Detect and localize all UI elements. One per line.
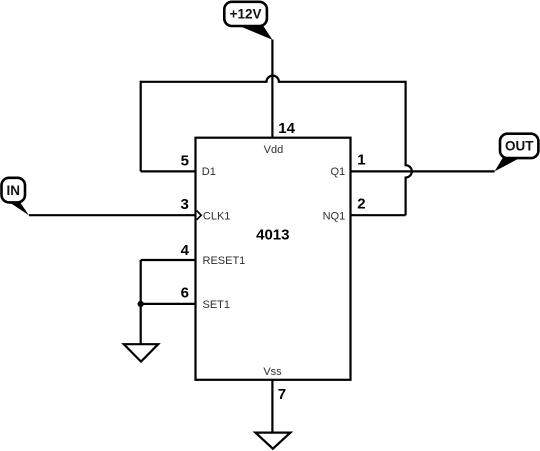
svg-text:4013: 4013: [256, 226, 289, 243]
ground symbol (left): [124, 344, 158, 361]
svg-text:Vdd: Vdd: [264, 144, 284, 156]
junction: SET1/ground node: [138, 301, 144, 307]
wire: SET1 pin 6 horizontal: [141, 303, 196, 305]
svg-text:IN: IN: [7, 183, 21, 198]
ground symbol (bottom): [255, 433, 290, 449]
wire: IN to CLK1 pin 3: [29, 214, 196, 216]
wire: right vertical with hop over Q1 wire: [406, 81, 412, 216]
svg-text:3: 3: [180, 196, 188, 213]
wire: RESET1 pin 4 horizontal: [141, 259, 196, 261]
svg-text:Q1: Q1: [331, 166, 346, 178]
wire: vertical RESET1/SET1 to ground: [140, 260, 142, 344]
svg-text:NQ1: NQ1: [323, 210, 346, 222]
svg-text:7: 7: [278, 386, 286, 403]
svg-text:+12V: +12V: [230, 7, 262, 22]
svg-text:5: 5: [181, 152, 189, 169]
output flag OUT: [495, 134, 539, 172]
svg-text:14: 14: [278, 120, 295, 137]
wire: +12V to pin 14 (vertical): [271, 40, 273, 138]
svg-text:6: 6: [181, 285, 189, 302]
svg-text:2: 2: [357, 196, 365, 213]
svg-text:1: 1: [357, 151, 365, 168]
clock input triangle on CLK1: [197, 211, 202, 220]
wire: left vertical (top net down to D1): [140, 81, 142, 172]
svg-text:CLK1: CLK1: [203, 210, 231, 222]
wire: top horizontal net with hop over +12V wire: [141, 76, 406, 82]
svg-text:Vss: Vss: [263, 366, 282, 378]
svg-text:OUT: OUT: [505, 139, 534, 154]
wire: NQ1 pin 2 horizontal: [351, 214, 406, 216]
svg-text:D1: D1: [202, 166, 216, 178]
svg-text:RESET1: RESET1: [203, 255, 246, 267]
wire: D1 pin 5 horizontal: [141, 170, 196, 172]
svg-text:SET1: SET1: [203, 299, 231, 311]
IC U1 4013 body: [196, 138, 351, 380]
input flag IN: [2, 178, 30, 216]
wire: Vss pin 7 vertical: [271, 380, 273, 433]
power flag +12V: [224, 2, 272, 40]
wire: Q1 pin 1 horizontal to OUT: [351, 170, 495, 172]
svg-text:4: 4: [181, 242, 190, 259]
